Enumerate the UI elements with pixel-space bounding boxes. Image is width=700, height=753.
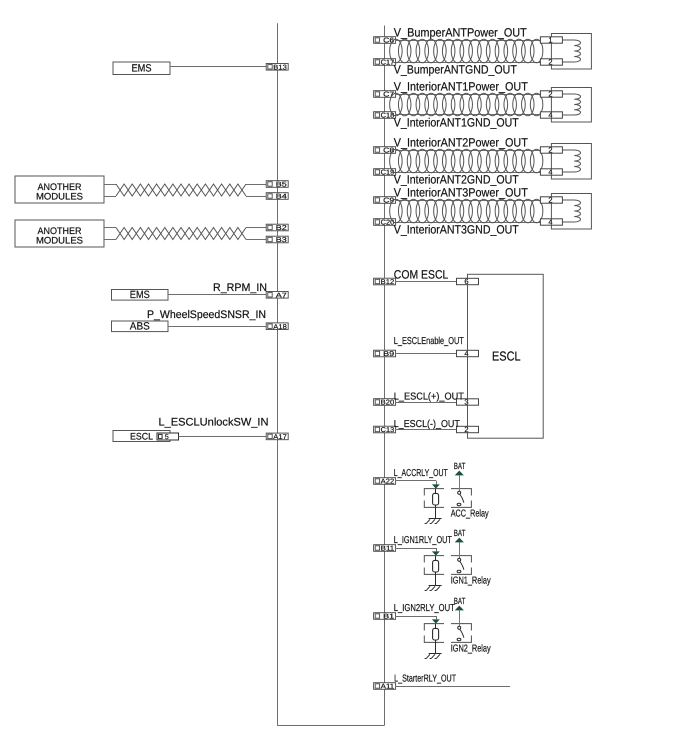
svg-text:V_InteriorANT3Power_OUT: V_InteriorANT3Power_OUT: [394, 186, 529, 200]
svg-text:B12: B12: [381, 279, 395, 286]
svg-text:L_ESCL(-)_OUT: L_ESCL(-)_OUT: [394, 419, 460, 430]
svg-text:2: 2: [548, 146, 552, 155]
svg-text:V_InteriorANT2Power_OUT: V_InteriorANT2Power_OUT: [394, 136, 529, 150]
svg-text:MODULES: MODULES: [36, 192, 83, 203]
svg-text:ABS: ABS: [130, 320, 150, 332]
svg-text:A11: A11: [381, 684, 395, 691]
svg-text:V_InteriorANT1GND_OUT: V_InteriorANT1GND_OUT: [394, 116, 520, 130]
svg-text:4: 4: [548, 168, 552, 177]
svg-text:2: 2: [548, 90, 552, 99]
svg-text:BAT: BAT: [454, 596, 466, 606]
svg-text:V_BumperANTGND_OUT: V_BumperANTGND_OUT: [394, 63, 518, 77]
svg-text:EMS: EMS: [130, 289, 150, 301]
svg-text:L_ACCRLY_OUT: L_ACCRLY_OUT: [394, 468, 448, 479]
svg-text:V_InteriorANT2GND_OUT: V_InteriorANT2GND_OUT: [394, 173, 520, 187]
svg-text:R_RPM_IN: R_RPM_IN: [213, 282, 267, 294]
svg-text:L_ESCL(+)_OUT: L_ESCL(+)_OUT: [394, 391, 464, 402]
svg-text:A17: A17: [273, 434, 287, 441]
svg-text:4: 4: [464, 349, 468, 358]
svg-text:5: 5: [165, 434, 169, 441]
svg-text:ESCL: ESCL: [130, 431, 153, 442]
svg-text:B4: B4: [276, 194, 287, 201]
svg-text:B3: B3: [276, 237, 287, 244]
svg-text:ACC_Relay: ACC_Relay: [451, 509, 489, 520]
svg-text:A18: A18: [273, 324, 287, 331]
svg-text:IGN2_Relay: IGN2_Relay: [451, 644, 491, 655]
svg-text:B20: B20: [381, 400, 395, 407]
svg-text:L_IGN1RLY_OUT: L_IGN1RLY_OUT: [394, 535, 452, 546]
svg-text:A22: A22: [381, 479, 395, 486]
svg-text:A7: A7: [276, 292, 287, 299]
svg-text:2: 2: [464, 425, 468, 434]
svg-text:B5: B5: [276, 182, 287, 189]
svg-text:V_InteriorANT3GND_OUT: V_InteriorANT3GND_OUT: [394, 223, 520, 237]
svg-text:6: 6: [464, 277, 468, 286]
svg-text:BAT: BAT: [454, 528, 466, 538]
svg-text:1: 1: [548, 36, 552, 45]
svg-text:L_ESCLUnlockSW_IN: L_ESCLUnlockSW_IN: [159, 417, 269, 429]
svg-text:B11: B11: [381, 546, 395, 553]
svg-text:B13: B13: [273, 64, 287, 71]
svg-text:2: 2: [548, 196, 552, 205]
svg-text:3: 3: [464, 398, 468, 407]
svg-text:B9: B9: [383, 351, 394, 358]
svg-text:COM ESCL: COM ESCL: [394, 267, 449, 281]
svg-text:4: 4: [548, 218, 552, 227]
svg-text:V_BumperANTPower_OUT: V_BumperANTPower_OUT: [394, 26, 528, 40]
svg-text:ESCL: ESCL: [492, 349, 521, 364]
svg-text:2: 2: [548, 58, 552, 67]
svg-text:4: 4: [548, 111, 552, 120]
svg-text:EMS: EMS: [132, 63, 152, 75]
svg-text:B1: B1: [383, 614, 394, 621]
svg-text:MODULES: MODULES: [36, 236, 83, 247]
svg-text:V_InteriorANT1Power_OUT: V_InteriorANT1Power_OUT: [394, 80, 529, 94]
svg-text:B2: B2: [276, 225, 287, 232]
svg-text:C13: C13: [381, 427, 395, 434]
svg-text:L_IGN2RLY_OUT: L_IGN2RLY_OUT: [394, 603, 455, 614]
svg-text:P_WheelSpeedSNSR_IN: P_WheelSpeedSNSR_IN: [147, 309, 266, 321]
svg-text:IGN1_Relay: IGN1_Relay: [451, 576, 491, 587]
svg-text:BAT: BAT: [454, 461, 466, 471]
svg-text:L_StarterRLY_OUT: L_StarterRLY_OUT: [394, 673, 456, 684]
svg-text:L_ESCLEnable_OUT: L_ESCLEnable_OUT: [394, 336, 464, 347]
